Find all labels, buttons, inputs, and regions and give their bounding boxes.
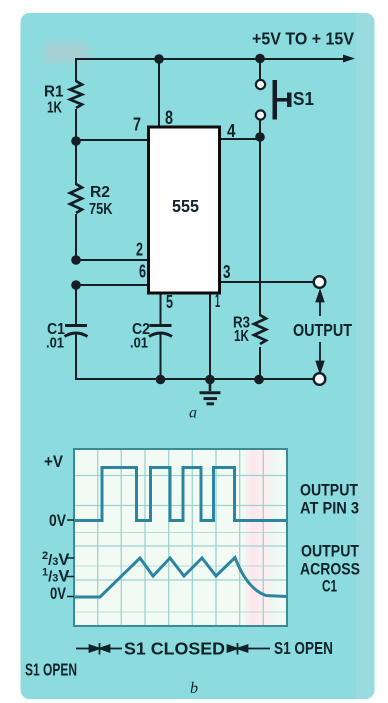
wire node to C1 (75, 285, 77, 324)
op IC 555 (149, 127, 220, 293)
node pin2 (71, 255, 81, 265)
svg-text:OUTPUT: OUTPUT (293, 320, 352, 340)
wire pin5 to C2 (160, 293, 162, 324)
output terminal bottom (314, 373, 326, 385)
svg-text:a: a (189, 405, 197, 422)
node top rail S1 (255, 54, 265, 64)
trace C1 ramp (75, 558, 286, 598)
scope screen (67, 449, 287, 626)
ground (200, 379, 221, 404)
wire C1 to bottom rail (75, 335, 77, 379)
svg-text:R1: R1 (44, 84, 64, 101)
axis ticks (67, 520, 74, 597)
wire pin2 (76, 259, 148, 261)
resistor R1 (70, 81, 82, 108)
wire bottom rail (76, 378, 314, 380)
wire pin3 to output (220, 281, 313, 283)
capacitor C2 (149, 326, 172, 337)
node pin6 (71, 280, 81, 290)
svg-text:8: 8 (165, 108, 173, 129)
grid (74, 449, 287, 626)
svg-text:R2: R2 (90, 184, 110, 201)
wire R1 to node (75, 110, 77, 141)
svg-text:75K: 75K (89, 201, 113, 218)
right edge tint (356, 14, 374, 698)
output arrows (317, 291, 324, 372)
svg-text:.01: .01 (130, 335, 148, 352)
svg-text:AT PIN 3: AT PIN 3 (300, 499, 359, 518)
svg-text:S1 OPEN: S1 OPEN (25, 660, 77, 680)
top-left gray smudge (44, 43, 88, 63)
node pin1 rail (205, 375, 215, 385)
wire pin1 down (209, 293, 211, 379)
wire R2 bottom to node (75, 215, 77, 260)
svg-text:S1 OPEN: S1 OPEN (274, 638, 333, 658)
trace square wave pin3 (75, 468, 286, 521)
svg-text:1K: 1K (47, 100, 63, 117)
wire pin7 (76, 139, 148, 141)
svg-text:555: 555 (172, 196, 199, 216)
svg-text:+V: +V (44, 453, 63, 471)
switch S1 (256, 80, 292, 120)
capacitor C1 (65, 326, 88, 337)
supply arrowhead (343, 55, 355, 63)
svg-text:+5V TO + 15V: +5V TO + 15V (252, 29, 354, 49)
node R3 rail (254, 375, 264, 385)
pink band (243, 450, 281, 625)
svg-text:1: 1 (215, 291, 220, 311)
svg-text:6: 6 (139, 262, 146, 282)
wire R3 to bottom rail (259, 348, 261, 379)
wire top rail (76, 58, 342, 60)
svg-text:2: 2 (136, 240, 143, 260)
node C2 rail (156, 375, 166, 385)
wire pin4 (220, 138, 260, 140)
svg-text:S1: S1 (293, 89, 314, 109)
node pin4 S1 (255, 132, 265, 142)
screen border (74, 449, 287, 626)
annotation S1 closed/open (76, 643, 270, 655)
wire S1 branch lower (259, 120, 261, 137)
wire R2 top (75, 141, 77, 184)
node R1 pin7 (71, 136, 81, 146)
svg-text:0V: 0V (49, 512, 66, 530)
node top rail pin8 (154, 54, 164, 64)
wire right branch to R3 (259, 137, 261, 315)
wire pin8 drop (158, 59, 160, 127)
resistor R2 (70, 184, 82, 213)
svg-text:C1: C1 (322, 577, 337, 596)
wire R1 branch top (75, 59, 77, 81)
wire C2 to bottom rail (160, 335, 162, 379)
svg-text:OUTPUT: OUTPUT (300, 481, 359, 500)
svg-text:7: 7 (133, 115, 141, 135)
svg-text:OUTPUT: OUTPUT (301, 542, 360, 561)
svg-text:5: 5 (166, 292, 173, 312)
svg-text:1K: 1K (234, 328, 250, 345)
svg-text:.01: .01 (46, 335, 64, 352)
resistor R3 (254, 315, 266, 344)
wire S1 branch upper (259, 59, 261, 79)
output terminal top (314, 276, 326, 288)
svg-text:S1 CLOSED: S1 CLOSED (124, 639, 225, 659)
svg-text:4: 4 (227, 121, 236, 141)
svg-text:0V: 0V (50, 585, 66, 603)
svg-text:b: b (190, 680, 198, 697)
wire pin6 (76, 284, 148, 286)
svg-text:3: 3 (223, 262, 231, 282)
